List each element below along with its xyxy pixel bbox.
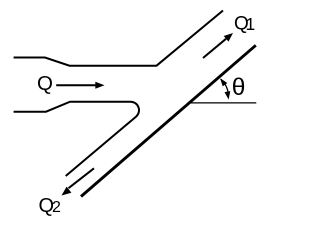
svg-text:Q: Q [37, 72, 53, 95]
svg-text:2: 2 [52, 199, 61, 216]
svg-text:θ: θ [232, 74, 246, 101]
svg-text:1: 1 [246, 14, 256, 34]
